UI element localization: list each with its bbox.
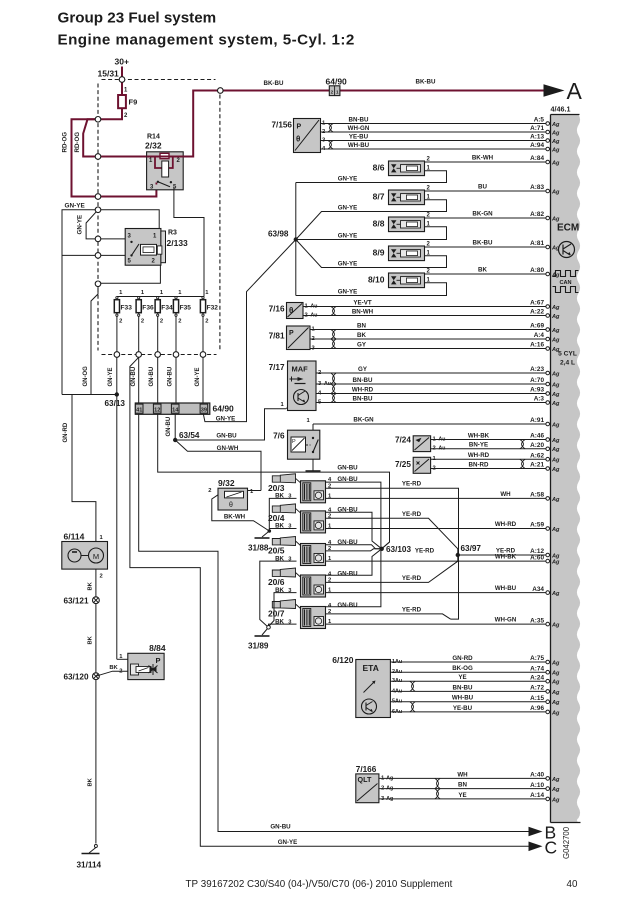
- svg-text:BK-BU: BK-BU: [416, 79, 436, 86]
- svg-text:BN-BU: BN-BU: [349, 116, 369, 123]
- svg-text:40: 40: [567, 879, 578, 890]
- wire BN 7/81 pin 1: [310, 329, 547, 331]
- wire GN-RD 6/120 pin 1: [391, 661, 547, 663]
- svg-text:BN-WH: BN-WH: [352, 308, 374, 315]
- 64/90 cell 41: [135, 404, 143, 413]
- wire BK 8/10 pin 2: [425, 273, 547, 275]
- wire F9 to node 15/31 crossing: [98, 108, 122, 119]
- svg-text:WH-GN: WH-GN: [348, 125, 370, 132]
- svg-text:20/5: 20/5: [268, 546, 285, 556]
- svg-text:GN-YE: GN-YE: [338, 260, 358, 267]
- wire 63/13 rail to 8/84 pin 1: [117, 658, 128, 660]
- svg-text:A:67: A:67: [530, 300, 544, 307]
- svg-text:Ag: Ag: [551, 130, 560, 136]
- wire GN-YE down to arrow C: [130, 357, 529, 846]
- ECM pin A:82: [546, 216, 550, 220]
- arrow A to 4/46.1: [544, 84, 565, 96]
- ECM pin A:70: [546, 382, 550, 386]
- svg-text:15/31: 15/31: [98, 69, 120, 79]
- svg-text:8/10: 8/10: [368, 275, 385, 285]
- svg-text:G042700: G042700: [562, 826, 571, 859]
- 64/90 cell 39: [200, 404, 208, 413]
- ECM pin A:4: [546, 337, 550, 341]
- svg-text:A:16: A:16: [530, 342, 544, 349]
- svg-text:Ag: Ag: [551, 337, 560, 343]
- ignition coil 20/6: [272, 568, 295, 577]
- svg-text:63/97: 63/97: [461, 544, 482, 553]
- svg-text:Ag: Ag: [551, 690, 560, 696]
- node F33 crossing: [114, 352, 120, 358]
- svg-text:6/114: 6/114: [64, 532, 85, 542]
- ignition coil 20/3: [272, 474, 295, 483]
- wire GN-YE 63/98 to 64/90 pin 39: [203, 240, 295, 422]
- svg-text:Ag: Ag: [551, 401, 560, 407]
- svg-text:YE-RD: YE-RD: [402, 575, 422, 582]
- svg-text:BN: BN: [357, 322, 366, 329]
- resistor 9/32: [218, 488, 248, 510]
- twisted pair 6/120 3-4: [410, 681, 414, 691]
- svg-text:7/166: 7/166: [356, 765, 377, 774]
- svg-text:8/8: 8/8: [373, 219, 385, 229]
- svg-text:2: 2: [208, 488, 211, 494]
- ignition coil 20/7: [272, 600, 295, 609]
- svg-text:GN-YE: GN-YE: [77, 215, 84, 235]
- svg-text:WH: WH: [500, 491, 511, 498]
- wire maroon across R14 pins 1-2: [147, 156, 194, 158]
- svg-text:GN-BU: GN-BU: [131, 367, 137, 387]
- twisted pair 6/120 5-6: [410, 702, 414, 712]
- svg-text:A:84: A:84: [530, 155, 544, 162]
- svg-text:θ: θ: [296, 135, 300, 144]
- wire YE-RD 20/5 pin2 to 63/103: [326, 549, 382, 551]
- svg-text:WH-BU: WH-BU: [495, 585, 517, 592]
- svg-text:GN-RD: GN-RD: [452, 655, 473, 662]
- wire below F33: [116, 316, 118, 351]
- 7/6 switch arm: [313, 440, 318, 453]
- wire YE 6/120 pin 3: [391, 680, 547, 682]
- ground 31/88: [255, 537, 270, 539]
- twisted pair 7/81 1-2: [331, 330, 335, 340]
- svg-text:F33: F33: [121, 305, 133, 312]
- junction 63/120: [93, 673, 100, 680]
- svg-text:GN-YE: GN-YE: [195, 367, 201, 386]
- throttle unit 6/120 ETA: [356, 660, 391, 718]
- svg-text:Ag: Ag: [551, 458, 560, 464]
- svg-text:63/98: 63/98: [268, 230, 289, 239]
- svg-text:Group 23 Fuel system: Group 23 Fuel system: [58, 9, 217, 26]
- svg-text:A:5: A:5: [534, 117, 545, 124]
- ECM pin A:3: [546, 401, 550, 405]
- svg-text:A:62: A:62: [530, 452, 544, 459]
- svg-text:CAN: CAN: [559, 280, 571, 286]
- wire below F32: [202, 316, 204, 351]
- wire WH 20/3 pin 1: [326, 497, 547, 499]
- svg-text:GN-BU: GN-BU: [270, 824, 291, 831]
- svg-text:Ag: Ag: [551, 245, 560, 251]
- svg-text:Ag: Ag: [551, 671, 560, 677]
- 7/6 switch contact top: [312, 437, 314, 439]
- junction 63/13: [115, 392, 119, 396]
- wire BN-YE 7/24 pin 2: [431, 448, 547, 450]
- svg-text:2: 2: [119, 319, 122, 325]
- svg-text:GN-BU: GN-BU: [216, 432, 237, 439]
- wire GN-YE left loop down: [62, 210, 98, 395]
- svg-text:20/6: 20/6: [268, 577, 285, 587]
- wire GN-BU 63/54 to MAF pin 1: [175, 409, 286, 440]
- ECM pin A:14: [546, 797, 550, 801]
- svg-text:5 CYL: 5 CYL: [558, 351, 577, 358]
- ECM pin A:15: [546, 700, 550, 704]
- wire below F34: [157, 316, 159, 351]
- twisted pair 7/81 2-3: [331, 339, 335, 349]
- svg-text:7/6: 7/6: [273, 432, 285, 441]
- wire YE-BU 6/120 pin 6: [391, 711, 547, 713]
- svg-text:BK: BK: [109, 665, 118, 671]
- ECM pin A34: [546, 591, 550, 595]
- svg-text:GN-BU: GN-BU: [149, 367, 155, 387]
- fuse F34: [157, 297, 159, 299]
- svg-text:Ag: Ag: [551, 447, 560, 453]
- wire BU 8/7 pin 2: [425, 190, 547, 192]
- svg-text:BK-GN: BK-GN: [353, 416, 374, 423]
- ECM pin A:84: [546, 160, 550, 164]
- wire GN-YE F33 through 63/13 down to 8/84: [116, 357, 118, 659]
- svg-text:Ag: Ag: [551, 160, 560, 166]
- svg-text:4/46.1: 4/46.1: [551, 105, 571, 114]
- svg-text:YE: YE: [458, 674, 466, 681]
- sensor 7/156: [294, 119, 321, 153]
- svg-text:WH: WH: [457, 771, 468, 778]
- wire GN-BU F36 down to arrow B: [139, 357, 529, 831]
- wire BK 63/120 to 8/84 pin 2: [96, 671, 128, 676]
- ground 7/6: [306, 470, 321, 472]
- 64/90 cell 14: [171, 404, 179, 413]
- wire BK 20/3 pin 3: [269, 498, 296, 531]
- wire R3 pin 2 to node: [98, 265, 160, 283]
- node F32 crossing: [200, 352, 206, 358]
- ECM pin A:20: [546, 447, 550, 451]
- arrow C: [529, 842, 543, 852]
- svg-text:BK: BK: [88, 777, 94, 786]
- 64/90 cell 12: [153, 404, 161, 413]
- wire BK 20/7 pin 3: [269, 624, 297, 625]
- svg-text:YE: YE: [458, 792, 466, 799]
- svg-text:Ag: Ag: [551, 787, 560, 793]
- ECM pin A:59: [546, 527, 550, 531]
- wire F35 to 64/90 pin 14: [175, 357, 177, 403]
- wire GN-BU main into 63/103: [382, 542, 390, 549]
- svg-text:A:58: A:58: [530, 492, 544, 499]
- svg-text:WH-RD: WH-RD: [495, 521, 517, 528]
- svg-text:BK: BK: [88, 635, 94, 644]
- svg-text:BK-BU: BK-BU: [264, 80, 284, 87]
- svg-text:Ag: Ag: [551, 139, 560, 145]
- svg-text:14: 14: [172, 407, 179, 413]
- svg-text:BK-BU: BK-BU: [473, 240, 493, 247]
- svg-text:12: 12: [154, 407, 160, 413]
- R3 switch contact bottom: [130, 254, 132, 256]
- svg-text:A:15: A:15: [530, 695, 544, 702]
- wire BK 7/81 pin 2: [310, 338, 547, 340]
- svg-text:BU: BU: [478, 184, 487, 191]
- svg-text:GN-RD: GN-RD: [63, 422, 69, 442]
- wire BK-WH 9/32 pin 2 to ground 31/88: [212, 495, 269, 531]
- wire BK 6/114 pin 2 to ground 31/114: [95, 569, 97, 843]
- svg-text:7/24: 7/24: [395, 435, 411, 444]
- 7/6 switch contact bottom: [312, 451, 314, 453]
- sensor 7/16: [287, 303, 304, 319]
- svg-text:8/9: 8/9: [373, 248, 385, 258]
- dashed boundary right edge: [219, 95, 221, 351]
- svg-text:Ag: Ag: [551, 553, 560, 559]
- svg-text:A:40: A:40: [530, 772, 544, 779]
- svg-text:F35: F35: [180, 305, 192, 312]
- injector 8/6: [389, 161, 425, 176]
- node BK-BU on dashed right: [218, 88, 224, 94]
- twisted pair 7/25: [520, 459, 524, 468]
- svg-text:C: C: [545, 838, 558, 858]
- svg-text:YE-RD: YE-RD: [402, 511, 422, 518]
- svg-text:WH-RD: WH-RD: [352, 386, 374, 393]
- twisted pair 7/17 3-4: [331, 384, 335, 394]
- svg-text:A:70: A:70: [530, 377, 544, 384]
- svg-text:GN-YE: GN-YE: [338, 204, 358, 211]
- svg-text:39: 39: [201, 407, 207, 413]
- R14 coil series element: [160, 153, 169, 158]
- wire GN-YE riser 8/6: [295, 183, 297, 240]
- wire BN 7/166 pin 2: [379, 788, 547, 790]
- wire GN-BU 64/90 pin12 to 63/103: [158, 414, 390, 549]
- svg-text:GN-BU: GN-BU: [337, 602, 358, 609]
- junction 63/121: [93, 597, 100, 604]
- svg-text:7/25: 7/25: [395, 460, 411, 469]
- R3 resistor: [157, 246, 162, 254]
- svg-text:A:59: A:59: [530, 522, 544, 529]
- fuel pump 6/114: [62, 542, 108, 570]
- wire BK-GN 7/6 pin 1 to A:91: [313, 423, 547, 425]
- svg-text:31/114: 31/114: [77, 861, 102, 870]
- svg-text:YE-BU: YE-BU: [349, 133, 369, 140]
- svg-text:YE-RD: YE-RD: [402, 606, 422, 613]
- svg-text:Ag: Ag: [551, 328, 560, 334]
- ECM pin A:46: [546, 438, 550, 442]
- svg-text:Ag: Ag: [551, 314, 560, 320]
- svg-text:Ag: Ag: [551, 527, 560, 533]
- fuse F32: [202, 297, 204, 299]
- ECM pin A:74: [546, 670, 550, 674]
- wire WH-BU 20/6 pin 1: [326, 592, 547, 594]
- node GN-YE crossing: [95, 207, 101, 213]
- dashed boundary left edge: [97, 84, 99, 351]
- svg-text:WH-BU: WH-BU: [452, 695, 474, 702]
- svg-text:YE-RD: YE-RD: [402, 481, 422, 488]
- svg-text:8/84: 8/84: [149, 643, 166, 653]
- ECM K symbol: [559, 242, 575, 258]
- svg-text:A:22: A:22: [530, 309, 544, 316]
- svg-text:A:24: A:24: [530, 674, 544, 681]
- wire WH-BK 20/5 pin 1: [326, 560, 547, 562]
- svg-text:7/156: 7/156: [272, 121, 293, 130]
- svg-text:63/13: 63/13: [105, 399, 126, 408]
- svg-text:θ: θ: [289, 306, 293, 315]
- wire RD-OG branch to R14 coil and BK-BU to A: [83, 91, 544, 157]
- svg-text:20/4: 20/4: [268, 513, 285, 523]
- svg-text:Ag: Ag: [551, 710, 560, 716]
- svg-text:A:21: A:21: [530, 462, 544, 469]
- svg-text:BK-GN: BK-GN: [472, 211, 493, 218]
- svg-text:GN-BU: GN-BU: [337, 464, 358, 471]
- wire left loop to node: [62, 254, 98, 256]
- svg-text:P: P: [292, 439, 296, 445]
- wire WH-RD 7/17 pin 4: [316, 393, 547, 395]
- wire GN-BU 20/4 and 20/6 pin4: [326, 512, 382, 575]
- ECM pin A:60: [546, 559, 550, 563]
- ignition coil 20/4: [272, 504, 295, 513]
- R14 switch arm: [158, 182, 170, 187]
- wire GY 7/17 pin 2: [316, 372, 547, 374]
- twisted pair 7/156 3-4: [328, 141, 332, 150]
- svg-text:20/7: 20/7: [268, 609, 285, 619]
- svg-text:64/90: 64/90: [213, 403, 235, 413]
- svg-text:31/89: 31/89: [248, 642, 269, 651]
- wire BN-BU 7/156 pin 1: [321, 123, 547, 125]
- svg-text:63/103: 63/103: [386, 545, 411, 554]
- ECM pin A:94: [546, 147, 550, 151]
- node fuse output crossing: [95, 117, 101, 123]
- svg-text:BK: BK: [357, 332, 366, 339]
- wire GN-YE node to R3 pin 1: [98, 210, 159, 229]
- wire 9/32 pin 1 to GN-WH: [248, 490, 262, 492]
- svg-text:R14: R14: [147, 134, 160, 141]
- wire BK-WH 8/6 pin 2: [425, 161, 547, 163]
- svg-text:BK: BK: [88, 581, 94, 590]
- svg-text:F32: F32: [207, 305, 219, 312]
- svg-text:2/32: 2/32: [145, 141, 162, 151]
- svg-text:QLT: QLT: [358, 775, 372, 784]
- wire BN-BU 7/17 pin 3: [316, 383, 547, 385]
- svg-text:30+: 30+: [115, 57, 129, 67]
- junction 31/89: [267, 626, 271, 630]
- svg-text:Ag: Ag: [551, 422, 560, 428]
- svg-text:GN-YE: GN-YE: [338, 288, 358, 295]
- wire BN-BU 6/120 pin 4: [391, 690, 547, 692]
- svg-text:2,4 L: 2,4 L: [560, 360, 575, 367]
- ECM pin A:10: [546, 787, 550, 791]
- ECM pin A:96: [546, 710, 550, 714]
- svg-text:YE-RD: YE-RD: [496, 547, 516, 554]
- wire YE-RD 63/97 to A:12: [458, 554, 547, 556]
- svg-text:20/3: 20/3: [268, 483, 285, 493]
- wire BK 20/6 pin 3: [269, 593, 297, 626]
- wire GN-YE return 8/9: [296, 240, 447, 268]
- wire 64/90 pin14 down to 63/54: [174, 414, 176, 440]
- svg-text:Ag: Ag: [551, 438, 560, 444]
- svg-text:GN-BU: GN-BU: [166, 417, 172, 437]
- svg-text:M: M: [93, 552, 99, 561]
- fuse F33: [116, 297, 118, 299]
- svg-text:Ag: Ag: [551, 560, 560, 566]
- ECM CAN symbol: [553, 271, 579, 277]
- R14 internal maroon left drop: [155, 158, 162, 169]
- wire GN-OG node to 63/13 rail: [91, 287, 98, 395]
- svg-text:GN-YE: GN-YE: [338, 232, 358, 239]
- svg-text:WH-RD: WH-RD: [468, 452, 490, 459]
- svg-text:A:23: A:23: [530, 366, 544, 373]
- svg-text:2: 2: [100, 574, 103, 580]
- svg-text:GN-BU: GN-BU: [337, 570, 358, 577]
- svg-text:BN-YE: BN-YE: [469, 442, 488, 449]
- svg-text:BK: BK: [478, 267, 487, 274]
- injector 8/10: [389, 273, 425, 288]
- wire GY 7/81 pin 3: [310, 348, 547, 350]
- svg-text:Ag: Ag: [551, 497, 560, 503]
- R3 side tab: [161, 231, 166, 263]
- svg-text:θ: θ: [229, 502, 233, 509]
- node R14 pin3 crossing: [95, 194, 101, 200]
- svg-text:Ag: Ag: [551, 216, 560, 222]
- wire WH-RD 20/4 pin 1: [326, 528, 547, 530]
- svg-text:A:74: A:74: [530, 665, 544, 672]
- wire BK-GN 8/8 pin 2: [425, 217, 547, 219]
- svg-text:GY: GY: [357, 341, 367, 348]
- ECM pin A:5: [546, 122, 550, 126]
- svg-text:WH-BK: WH-BK: [468, 432, 490, 439]
- svg-text:63/120: 63/120: [63, 673, 88, 682]
- svg-text:YE-VT: YE-VT: [353, 299, 371, 306]
- sensor 7/17 MAF: [288, 361, 317, 411]
- svg-text:Ag: Ag: [551, 467, 560, 473]
- R14 switch contact 5: [170, 181, 172, 183]
- svg-text:Ag: Ag: [551, 797, 560, 803]
- svg-text:ETA: ETA: [363, 663, 379, 673]
- node R3 pin3 crossing: [95, 236, 101, 242]
- svg-text:A:94: A:94: [530, 142, 544, 149]
- svg-text:Ag: Ag: [551, 305, 560, 311]
- ECM pin A:21: [546, 467, 550, 471]
- ECM pin A:75: [546, 660, 550, 664]
- svg-text:2: 2: [141, 319, 144, 325]
- wire GN-RD to 6/114 pin 1: [72, 395, 96, 542]
- svg-text:A:12: A:12: [530, 548, 544, 555]
- ignition coil 20/5: [272, 537, 295, 546]
- svg-text:A:3: A:3: [534, 396, 545, 403]
- svg-text:MAF: MAF: [292, 365, 309, 374]
- wire YE-RD 20/6 pin2 to 63/97: [326, 555, 458, 582]
- wire BK 20/5 pin 3: [260, 561, 297, 627]
- svg-text:A:96: A:96: [530, 705, 544, 712]
- R3 coil inner: [143, 247, 154, 253]
- svg-text:Ag: Ag: [551, 660, 560, 666]
- svg-text:6/120: 6/120: [332, 655, 354, 665]
- svg-text:Ag: Ag: [551, 382, 560, 388]
- svg-text:GN-OG: GN-OG: [83, 366, 89, 387]
- svg-text:A:46: A:46: [530, 433, 544, 440]
- svg-text:P: P: [297, 124, 302, 131]
- ECM pin A:67: [546, 305, 550, 309]
- fuse F9: [118, 95, 126, 108]
- svg-text:1: 1: [336, 89, 339, 94]
- sensor 7/166 QLT: [356, 774, 379, 803]
- ground stem 31/89: [262, 629, 268, 636]
- sensor 7/81: [287, 326, 311, 350]
- ECM pin A:40: [546, 777, 550, 781]
- ECM pin A:80: [546, 272, 550, 276]
- ECM pin A:71: [546, 130, 550, 134]
- wire GN-YE diagonal to R3 pin 3: [86, 210, 125, 239]
- svg-text:ECM: ECM: [557, 223, 579, 234]
- svg-text:7/16: 7/16: [269, 305, 285, 314]
- svg-text:41: 41: [136, 407, 142, 413]
